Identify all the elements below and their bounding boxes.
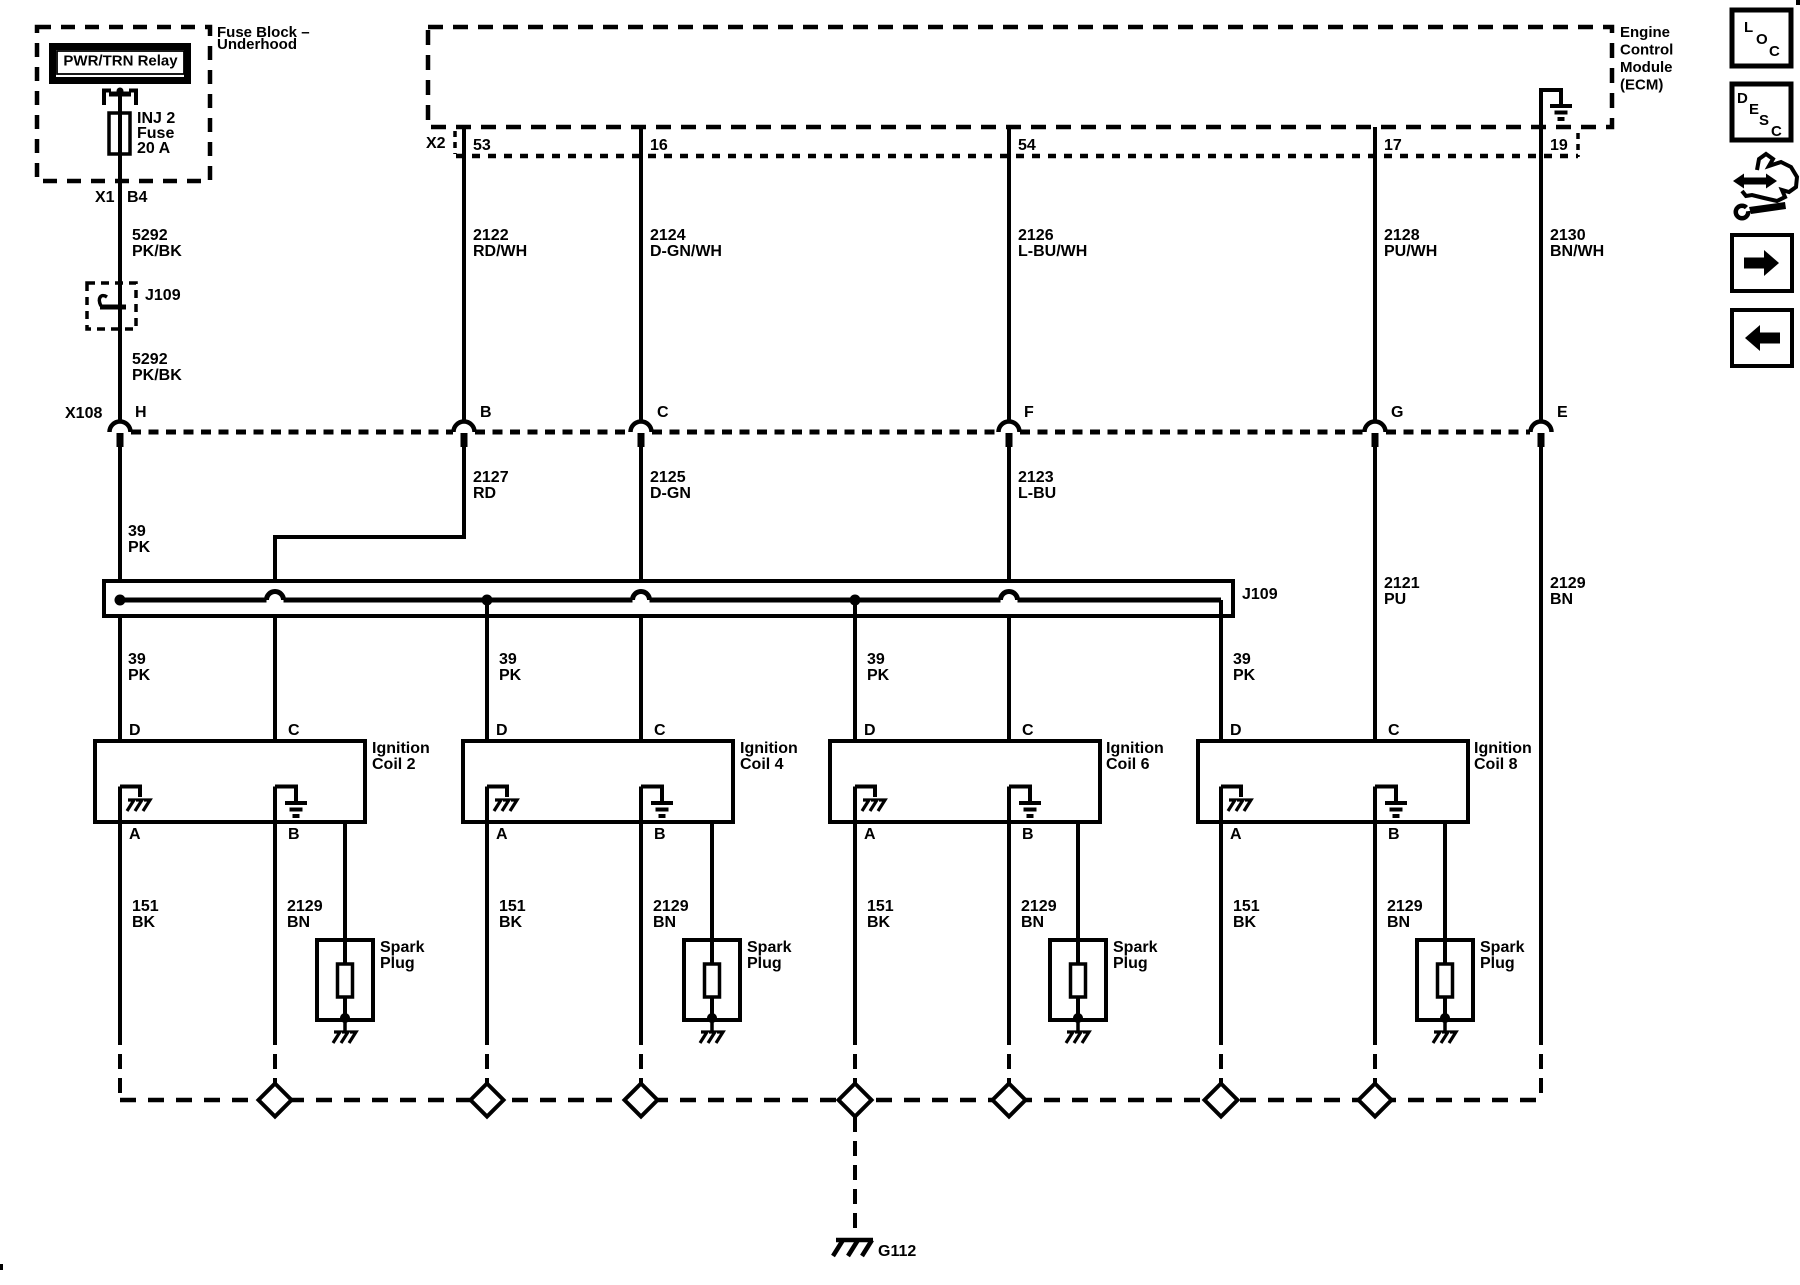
splice pack J109 bus box	[104, 581, 1233, 616]
svg-text:53: 53	[473, 137, 491, 154]
svg-text:2124: 2124	[650, 227, 686, 244]
dashed drop to ground bus at x=1221	[1219, 1030, 1223, 1085]
wire 39 PK tap to coil at x=855	[853, 600, 857, 741]
wire ECM pin 54 circuit 2126 L-BU/WH	[1007, 127, 1011, 421]
wire label 2128 PU/WH	[1384, 227, 1437, 260]
wire ECM pin 19 circuit 2130 BN/WH	[1539, 127, 1543, 421]
wire label 5292 PK/BK upper	[132, 227, 182, 260]
wire 2121 PU from X108 G to coil 8 pin C	[1373, 447, 1377, 741]
wire 2129 BN coil 4 pin B	[639, 787, 643, 1031]
svg-text:BK: BK	[1233, 914, 1257, 931]
junction dot splice feed	[115, 595, 126, 606]
svg-text:151: 151	[132, 898, 159, 915]
splice diamond at x=1375	[1359, 1084, 1392, 1117]
svg-text:B: B	[1022, 826, 1034, 843]
spark plug 1 label	[380, 939, 425, 972]
svg-text:B: B	[654, 826, 666, 843]
wire 39 PK tap to coil at x=1221	[1219, 600, 1223, 741]
spark plug 1 box	[317, 940, 373, 1020]
connector X108 pin C terminal	[631, 422, 652, 448]
wire label 2121 PU	[1384, 575, 1420, 608]
coil 8 internal earth ground	[1375, 787, 1407, 817]
fuse block label	[217, 24, 310, 53]
ignition coil 2 label	[372, 740, 430, 773]
svg-text:B: B	[1388, 826, 1400, 843]
svg-text:C: C	[1388, 722, 1400, 739]
svg-text:B4: B4	[127, 189, 148, 206]
svg-text:A: A	[496, 826, 508, 843]
icon DESC box	[1732, 84, 1791, 140]
svg-text:151: 151	[499, 898, 526, 915]
svg-text:54: 54	[1018, 137, 1036, 154]
svg-text:39: 39	[499, 651, 517, 668]
splice diamond at x=1009	[993, 1084, 1026, 1117]
svg-text:Ignition: Ignition	[1474, 740, 1532, 757]
junction dot spark plug 2	[707, 1013, 717, 1023]
svg-text:BN: BN	[287, 914, 310, 931]
svg-text:2127: 2127	[473, 469, 509, 486]
wire 2129 BN coil 8 pin B	[1373, 787, 1377, 1031]
dashed drop to ground bus at x=275	[273, 1030, 277, 1085]
svg-text:D: D	[496, 722, 508, 739]
wire 2125 D-GN from X108 C to coil 4 pin C	[639, 447, 643, 741]
coil 8 internal chassis ground	[1221, 787, 1251, 812]
ignition coil 6 label	[1106, 740, 1164, 773]
wire 151 BK coil 6 pin A	[853, 787, 857, 1031]
svg-text:39: 39	[867, 651, 885, 668]
svg-text:D-GN: D-GN	[650, 485, 691, 502]
connector X108 dashed line	[131, 430, 1530, 435]
svg-text:BN: BN	[1021, 914, 1044, 931]
svg-text:B: B	[288, 826, 300, 843]
svg-text:2128: 2128	[1384, 227, 1420, 244]
junction dot tap coil 4	[482, 595, 493, 606]
svg-text:F: F	[1024, 404, 1034, 421]
wire hop over bus at x=641	[633, 592, 650, 601]
wire label 2122 RD/WH	[473, 227, 527, 260]
svg-text:D-GN/WH: D-GN/WH	[650, 243, 722, 260]
page corner mark top right	[1796, 0, 1800, 5]
connector X108 pin F terminal	[999, 422, 1020, 448]
fuse block - underhood dashed box	[37, 27, 210, 181]
svg-text:C: C	[288, 722, 300, 739]
svg-text:2129: 2129	[1021, 898, 1057, 915]
svg-text:PK/BK: PK/BK	[132, 367, 182, 384]
svg-text:16: 16	[650, 137, 668, 154]
connector X1 pin B4 labels	[95, 189, 148, 206]
spark plug 4 box	[1417, 940, 1473, 1020]
svg-text:(ECM): (ECM)	[1620, 77, 1663, 94]
svg-text:Spark: Spark	[380, 939, 425, 956]
relay PWR/TRN Relay	[53, 47, 188, 81]
svg-text:PK/BK: PK/BK	[132, 243, 182, 260]
wire label 2129 BN	[1387, 898, 1423, 931]
svg-text:A: A	[1230, 826, 1242, 843]
svg-text:2121: 2121	[1384, 575, 1420, 592]
svg-text:20 A: 20 A	[137, 140, 171, 157]
splice diamond at x=855	[839, 1084, 872, 1117]
spark plug 2 chassis ground	[700, 1020, 723, 1043]
spark plug 4 label	[1480, 939, 1525, 972]
junction dot spark plug 1	[340, 1013, 350, 1023]
wire label 39 PK	[128, 523, 151, 556]
svg-text:BN: BN	[1387, 914, 1410, 931]
svg-text:L-BU: L-BU	[1018, 485, 1056, 502]
wire label 2130 BN/WH	[1550, 227, 1604, 260]
svg-text:E: E	[1749, 101, 1759, 118]
dashed drop coil 2 pin A	[118, 1030, 122, 1098]
wire hop over bus at x=275	[267, 592, 284, 600]
spark plug wire coil 4	[710, 822, 714, 1020]
dashed drop to G112	[853, 1117, 857, 1237]
wire 2129 BN from X108 E down right side	[1539, 447, 1543, 1030]
svg-text:Coil 8: Coil 8	[1474, 756, 1518, 773]
svg-text:C: C	[1022, 722, 1034, 739]
svg-text:39: 39	[128, 523, 146, 540]
svg-text:39: 39	[1233, 651, 1251, 668]
svg-text:H: H	[135, 404, 147, 421]
svg-text:19: 19	[1550, 137, 1568, 154]
ground G112	[833, 1240, 873, 1256]
dashed drop right 2129 BN	[1539, 1030, 1543, 1098]
svg-text:C: C	[1769, 43, 1780, 60]
svg-text:G112: G112	[878, 1243, 916, 1260]
svg-text:Control: Control	[1620, 42, 1673, 59]
spark plug 3 gap/resistor	[1071, 964, 1086, 997]
connector X108 pin B terminal	[454, 422, 475, 448]
svg-text:PK: PK	[128, 667, 151, 684]
svg-text:X1: X1	[95, 189, 115, 206]
svg-text:A: A	[864, 826, 876, 843]
coil 2 internal earth ground	[275, 787, 307, 817]
ignition coil 6 box	[830, 741, 1100, 822]
wire label 2124 D-GN/WH	[650, 227, 722, 260]
ground bus dashed wire	[120, 1098, 1541, 1103]
wire label 2129 BN	[653, 898, 689, 931]
svg-text:2129: 2129	[1387, 898, 1423, 915]
wire 151 BK coil 8 pin A	[1219, 787, 1223, 1031]
splice diamond at x=487	[471, 1084, 504, 1117]
wire label 2126 L-BU/WH	[1018, 227, 1087, 260]
dashed drop to ground bus at x=855	[853, 1030, 857, 1085]
spark plug 4 chassis ground	[1433, 1020, 1456, 1043]
wire label 39 PK	[867, 651, 890, 684]
svg-text:Ignition: Ignition	[740, 740, 798, 757]
svg-text:C: C	[657, 404, 669, 421]
svg-text:X2: X2	[426, 135, 446, 152]
spark plug 2 gap/resistor	[705, 964, 720, 997]
wire ECM pin 17 circuit 2128 PU/WH	[1373, 127, 1377, 421]
dashed drop to ground bus at x=1375	[1373, 1030, 1377, 1085]
svg-text:39: 39	[128, 651, 146, 668]
icon forward arrow box	[1732, 235, 1792, 291]
wire label 2129 BN	[1021, 898, 1057, 931]
svg-text:D: D	[1230, 722, 1242, 739]
coil 4 internal earth ground	[641, 787, 673, 817]
spark plug 3 box	[1050, 940, 1106, 1020]
wire label 39 PK	[128, 651, 151, 684]
splice J109 on feed wire	[87, 283, 136, 329]
svg-text:RD: RD	[473, 485, 496, 502]
svg-text:B: B	[480, 404, 492, 421]
ECM engine control module dashed box	[428, 27, 1612, 127]
connector X2 dotted line	[455, 131, 1578, 157]
svg-text:O: O	[1756, 31, 1768, 48]
wire 39 PK from X108 H to splice pack	[118, 447, 122, 741]
wire label 151 BK	[132, 898, 159, 931]
svg-text:C: C	[1771, 123, 1782, 140]
spark plug 3 label	[1113, 939, 1158, 972]
splice diamond at x=275	[259, 1084, 292, 1117]
svg-text:Ignition: Ignition	[372, 740, 430, 757]
svg-text:BN: BN	[653, 914, 676, 931]
svg-text:151: 151	[1233, 898, 1260, 915]
svg-text:E: E	[1557, 404, 1568, 421]
wire 151 BK coil 4 pin A	[485, 787, 489, 1031]
fuse holder clips	[104, 88, 136, 106]
wire label 2129 BN	[287, 898, 323, 931]
spark plug 1 chassis ground	[333, 1020, 356, 1043]
icon LOC box	[1732, 10, 1791, 66]
coil 6 internal chassis ground	[855, 787, 885, 812]
svg-text:Spark: Spark	[1113, 939, 1158, 956]
svg-text:PU/WH: PU/WH	[1384, 243, 1437, 260]
wire label 2129 BN	[1550, 575, 1586, 608]
coil 6 internal earth ground	[1009, 787, 1041, 817]
icon back arrow box	[1732, 310, 1792, 366]
wire 151 BK coil 2 pin A	[118, 787, 122, 1031]
spark plug 2 label	[747, 939, 792, 972]
svg-text:2130: 2130	[1550, 227, 1586, 244]
wire 2127 RD from X108 B to coil 2 pin C	[275, 447, 464, 741]
splice pack bus bar	[117, 598, 1221, 603]
svg-text:A: A	[129, 826, 141, 843]
splice diamond at x=1221	[1205, 1084, 1238, 1117]
svg-text:2126: 2126	[1018, 227, 1054, 244]
svg-text:RD/WH: RD/WH	[473, 243, 527, 260]
svg-text:BK: BK	[499, 914, 523, 931]
spark plug 3 chassis ground	[1066, 1020, 1089, 1043]
svg-text:J109: J109	[145, 287, 181, 304]
ignition coil 4 box	[463, 741, 733, 822]
spark plug 4 gap/resistor	[1438, 964, 1453, 997]
svg-text:2125: 2125	[650, 469, 686, 486]
svg-text:Engine: Engine	[1620, 24, 1670, 41]
svg-text:C: C	[654, 722, 666, 739]
wire ECM pin 53 circuit 2122 RD/WH	[462, 127, 466, 421]
dashed drop to ground bus at x=641	[639, 1030, 643, 1085]
svg-text:Plug: Plug	[1113, 955, 1148, 972]
svg-text:Module: Module	[1620, 59, 1673, 76]
spark plug 1 gap/resistor	[338, 964, 353, 997]
wire hop over bus at x=1009	[1001, 592, 1018, 601]
svg-text:PK: PK	[1233, 667, 1256, 684]
svg-text:17: 17	[1384, 137, 1402, 154]
svg-text:Plug: Plug	[747, 955, 782, 972]
svg-text:Plug: Plug	[1480, 955, 1515, 972]
svg-text:X108: X108	[65, 405, 102, 422]
svg-text:5292: 5292	[132, 351, 168, 368]
connector X108 pin G terminal	[1365, 422, 1386, 448]
fuse INJ 2 Fuse 20 A	[109, 96, 130, 154]
svg-text:D: D	[864, 722, 876, 739]
svg-text:2122: 2122	[473, 227, 509, 244]
svg-text:PU: PU	[1384, 591, 1406, 608]
svg-text:Spark: Spark	[1480, 939, 1525, 956]
svg-text:D: D	[129, 722, 141, 739]
fuse value label	[137, 110, 175, 157]
ignition coil 4 label	[740, 740, 798, 773]
svg-text:BK: BK	[132, 914, 156, 931]
svg-text:Plug: Plug	[380, 955, 415, 972]
splice diamond at x=641	[625, 1084, 658, 1117]
ignition coil 8 box	[1198, 741, 1468, 822]
wire label 2127 RD	[473, 469, 509, 502]
svg-text:Coil 6: Coil 6	[1106, 756, 1150, 773]
svg-text:Underhood: Underhood	[217, 36, 297, 53]
ECM internal ground at pin 19	[1541, 90, 1572, 127]
wire label 5292 PK/BK lower	[132, 351, 182, 384]
spark plug 2 box	[684, 940, 740, 1020]
ECM label	[1620, 24, 1673, 94]
svg-text:Coil 2: Coil 2	[372, 756, 416, 773]
svg-text:BN: BN	[1550, 591, 1573, 608]
svg-text:BN/WH: BN/WH	[1550, 243, 1604, 260]
spark plug wire coil 2	[343, 822, 347, 1020]
wire 2129 BN coil 2 pin B	[273, 787, 277, 1031]
svg-text:2129: 2129	[653, 898, 689, 915]
wire 2123 L-BU from X108 F to coil 6 pin C	[1007, 447, 1011, 741]
svg-text:J109: J109	[1242, 586, 1278, 603]
dashed drop to ground bus at x=1009	[1007, 1030, 1011, 1085]
wire 5292 PK/BK fuse to splice	[118, 154, 122, 421]
svg-text:2123: 2123	[1018, 469, 1054, 486]
wire label 39 PK	[1233, 651, 1256, 684]
svg-text:151: 151	[867, 898, 894, 915]
coil 2 internal chassis ground	[120, 787, 150, 812]
svg-text:PK: PK	[499, 667, 522, 684]
svg-text:PK: PK	[867, 667, 890, 684]
svg-text:Spark: Spark	[747, 939, 792, 956]
wire label 151 BK	[867, 898, 894, 931]
svg-text:BK: BK	[867, 914, 891, 931]
ignition coil 8 label	[1474, 740, 1532, 773]
coil 4 internal chassis ground	[487, 787, 517, 812]
svg-text:S: S	[1759, 112, 1769, 129]
wire 2129 BN coil 6 pin B	[1007, 787, 1011, 1031]
junction dot spark plug 4	[1440, 1013, 1450, 1023]
spark plug wire coil 8	[1443, 822, 1447, 1020]
page mark bottom left	[0, 1264, 3, 1270]
svg-text:G: G	[1391, 404, 1403, 421]
svg-text:L: L	[1744, 19, 1753, 36]
connector X108 pin H terminal	[110, 422, 131, 448]
wire label 2125 D-GN	[650, 469, 691, 502]
svg-text:L-BU/WH: L-BU/WH	[1018, 243, 1087, 260]
wire relay to fuse	[118, 94, 122, 113]
connector X108 pin E terminal	[1531, 422, 1552, 448]
icon wiring route scribble	[1733, 154, 1797, 221]
junction dot spark plug 3	[1073, 1013, 1083, 1023]
wire label 2123 L-BU	[1018, 469, 1056, 502]
wire label 151 BK	[1233, 898, 1260, 931]
junction dot tap coil 6	[850, 595, 861, 606]
wire ECM pin 16 circuit 2124 D-GN/WH	[639, 127, 643, 421]
svg-text:Coil 4: Coil 4	[740, 756, 784, 773]
wire 39 PK tap to coil at x=487	[485, 600, 489, 741]
svg-text:PK: PK	[128, 539, 151, 556]
svg-text:5292: 5292	[132, 227, 168, 244]
svg-text:PWR/TRN Relay: PWR/TRN Relay	[63, 53, 178, 70]
wire label 39 PK	[499, 651, 522, 684]
wire label 151 BK	[499, 898, 526, 931]
svg-text:2129: 2129	[287, 898, 323, 915]
svg-text:D: D	[1737, 90, 1748, 107]
spark plug wire coil 6	[1076, 822, 1080, 1020]
dashed drop to ground bus at x=487	[485, 1030, 489, 1085]
svg-text:Ignition: Ignition	[1106, 740, 1164, 757]
ignition coil 2 box	[95, 741, 365, 822]
svg-text:2129: 2129	[1550, 575, 1586, 592]
